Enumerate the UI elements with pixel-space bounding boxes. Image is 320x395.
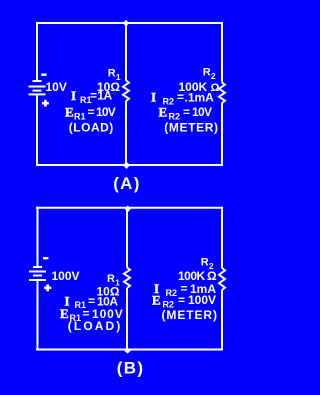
resistor R2 (100K ohm zigzag) bbox=[219, 83, 225, 104]
wire: middle branch upper (to resistor R1 B) bbox=[126, 207, 128, 268]
svg-text:(B): (B) bbox=[117, 359, 145, 378]
svg-text:E: E bbox=[159, 105, 168, 120]
svg-text:=: = bbox=[178, 293, 185, 307]
wire: middle branch upper (to resistor R1) bbox=[125, 22, 127, 81]
battery BT2 plus sign bbox=[44, 284, 51, 291]
battery BT2 plates (100V source) bbox=[29, 267, 46, 280]
svg-text:10V: 10V bbox=[96, 105, 116, 119]
wire: left branch lower (from battery BT2) bbox=[37, 281, 39, 351]
svg-text:(LOAD): (LOAD) bbox=[68, 319, 123, 333]
svg-text:(LOAD): (LOAD) bbox=[69, 121, 114, 135]
wire: middle branch lower (from resistor R1 B) bbox=[126, 288, 128, 351]
svg-text:R2: R2 bbox=[166, 288, 178, 298]
wire: top conductor B bbox=[36, 207, 223, 209]
svg-text:10V: 10V bbox=[46, 80, 67, 94]
svg-text:1A: 1A bbox=[97, 89, 112, 103]
svg-text:100V: 100V bbox=[52, 269, 80, 283]
wire: top conductor A bbox=[36, 22, 223, 24]
wire: left branch lower (from battery BT1) bbox=[36, 95, 38, 167]
battery BT2 minus sign bbox=[43, 257, 48, 259]
svg-text:10V: 10V bbox=[192, 105, 212, 119]
svg-text:I: I bbox=[151, 90, 156, 105]
battery BT1 plates (10V source) bbox=[29, 81, 46, 94]
junction node: top of middle branch B bbox=[125, 205, 131, 212]
wire: left branch upper (to battery BT1) bbox=[36, 22, 38, 80]
svg-text:=: = bbox=[183, 105, 190, 119]
svg-text:=: = bbox=[90, 89, 97, 103]
svg-text:(METER): (METER) bbox=[164, 121, 218, 135]
wire: right branch lower (from resistor R2) bbox=[221, 103, 223, 166]
resistor R1 B (10 ohm zigzag) bbox=[124, 268, 130, 289]
wire: bottom conductor A bbox=[36, 164, 223, 166]
svg-text:=: = bbox=[177, 90, 184, 104]
wire: right branch lower (from resistor R2 B) bbox=[221, 290, 223, 351]
wire: right branch upper (to resistor R2) bbox=[221, 22, 223, 83]
svg-text:I: I bbox=[71, 88, 76, 103]
battery BT1 minus sign bbox=[41, 74, 46, 76]
svg-text:=: = bbox=[88, 105, 95, 119]
svg-text:(A): (A) bbox=[113, 174, 141, 193]
battery BT1 plus sign bbox=[42, 100, 49, 107]
resistor R2 B (100K ohm zigzag) bbox=[219, 268, 225, 290]
svg-text:.1mA: .1mA bbox=[185, 91, 215, 105]
wire: left branch upper (to battery BT2) bbox=[37, 207, 39, 266]
svg-text:E: E bbox=[152, 293, 161, 308]
wire: middle branch lower (from resistor R1) bbox=[125, 101, 127, 166]
svg-text:(METER): (METER) bbox=[162, 308, 218, 322]
svg-text:Ω: Ω bbox=[207, 269, 217, 283]
resistor R1 (10 ohm zigzag) bbox=[123, 81, 129, 102]
junction node: bottom of middle branch A bbox=[123, 162, 130, 169]
svg-text:E: E bbox=[65, 105, 74, 120]
wire: bottom conductor B bbox=[36, 349, 223, 351]
junction node: top of middle branch A bbox=[123, 20, 129, 27]
svg-text:100V: 100V bbox=[188, 293, 216, 307]
junction node: bottom of middle branch B bbox=[124, 348, 131, 354]
wire: right branch upper (to resistor R2 B) bbox=[221, 207, 223, 268]
